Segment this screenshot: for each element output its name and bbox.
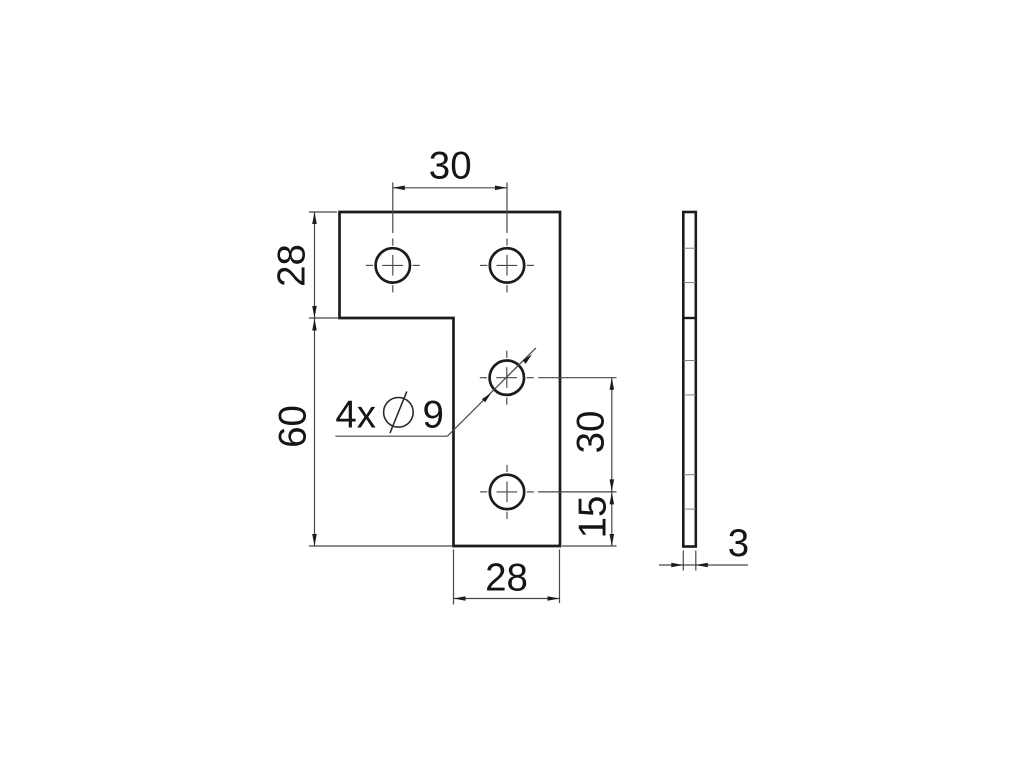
dimension 28 left: extension lines [309, 212, 338, 318]
dimension 15 right: bottom extension line [562, 545, 617, 547]
side view plate body [683, 212, 696, 547]
dimension 30 right: extension lines [538, 378, 617, 492]
side view hole tangent lines [684, 248, 696, 509]
dimension 28 bottom: dimension line [454, 598, 560, 600]
plate outline (front view, L-shape) [340, 212, 561, 546]
dimension 3 thickness: dimension line [659, 564, 748, 566]
dimension 30/15 right: dimension line [611, 378, 613, 546]
diameter symbol [384, 392, 414, 434]
centerline H3 [480, 351, 534, 405]
side view step edge [682, 317, 697, 319]
dimension 28 bottom: extension lines [454, 550, 560, 605]
dimension 30 top: extension lines [393, 183, 507, 234]
dimension 60 left: bottom extension line [309, 545, 452, 547]
hole H3 [490, 361, 524, 395]
dimension 3 thickness: arrows [671, 563, 683, 568]
hole H4 [490, 475, 524, 509]
svg-text:60: 60 [272, 405, 315, 448]
leader arrow outer [523, 354, 532, 363]
svg-text:30: 30 [429, 145, 472, 188]
svg-text:3: 3 [728, 522, 749, 565]
dimension 15 right: arrows [610, 492, 615, 504]
svg-text:15: 15 [572, 496, 615, 539]
svg-text:9: 9 [423, 393, 444, 436]
svg-text:4x: 4x [335, 393, 376, 436]
dimension 30 top: arrows [393, 186, 405, 191]
leader arrow at hole edge [482, 393, 491, 402]
hole H2 [490, 248, 524, 282]
dimension 30 right: arrows [610, 378, 615, 390]
dimension 30 top: dimension line [393, 187, 507, 189]
dimension 28 left: arrows [312, 212, 317, 224]
dimension 28 bottom: arrows [454, 596, 466, 601]
hole H1 [376, 248, 410, 282]
centerline H2 [480, 238, 534, 292]
svg-text:30: 30 [570, 411, 613, 454]
svg-text:28: 28 [485, 557, 528, 600]
svg-text:28: 28 [271, 244, 314, 287]
dimension 3 thickness: extension lines [683, 551, 696, 571]
dimension 28/60 left: dimension line [314, 212, 316, 546]
hole callout leader [335, 348, 536, 436]
centerline H4 [480, 465, 534, 519]
centerline H1 [366, 238, 420, 292]
dimension 60 left: arrows [312, 319, 317, 331]
